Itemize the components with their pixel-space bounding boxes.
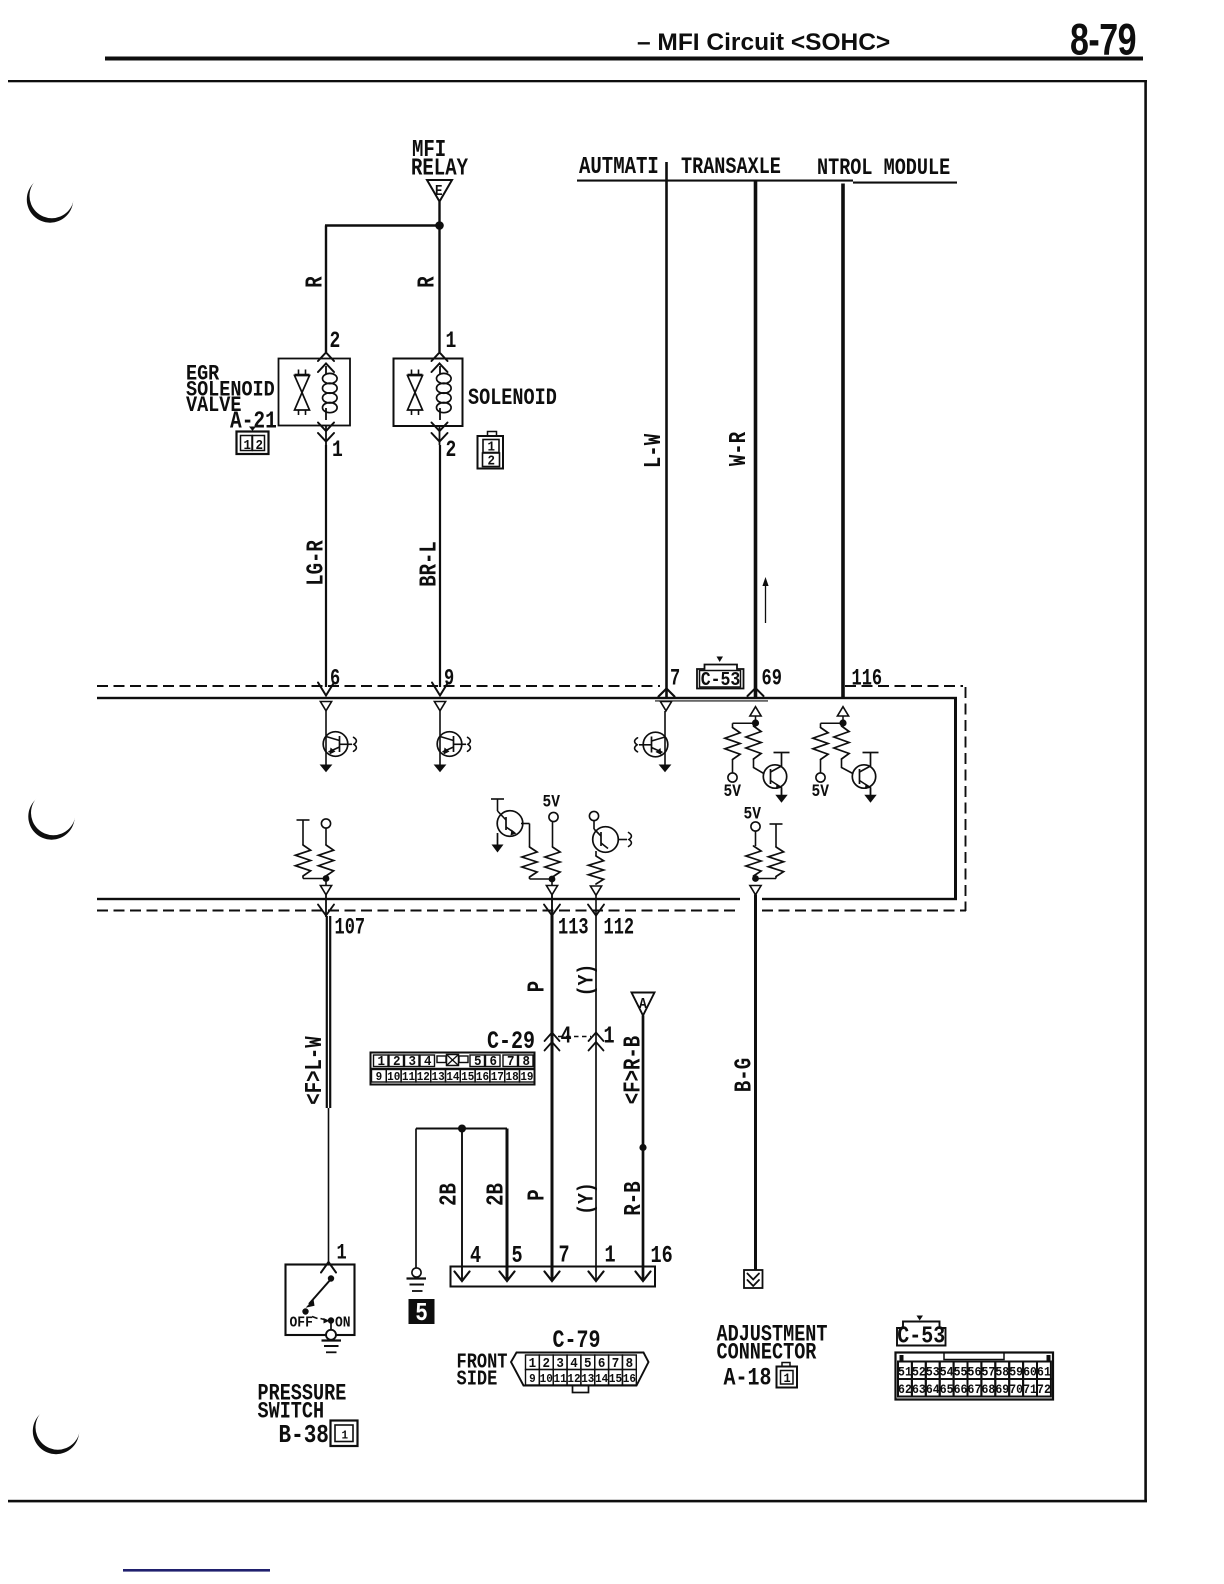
svg-text:69: 69 xyxy=(995,1383,1009,1398)
svg-text:2B: 2B xyxy=(437,1183,464,1206)
svg-text:(Y): (Y) xyxy=(575,964,600,996)
svg-text:A: A xyxy=(639,996,647,1013)
svg-text:BR-L: BR-L xyxy=(417,541,444,587)
svg-text:5V: 5V xyxy=(724,782,742,802)
svg-text:10: 10 xyxy=(387,1071,400,1085)
svg-text:SIDE: SIDE xyxy=(457,1367,498,1391)
svg-text:LG-R: LG-R xyxy=(304,540,331,586)
svg-text:3: 3 xyxy=(409,1053,417,1069)
svg-text:C-53: C-53 xyxy=(897,1323,945,1350)
svg-text:63: 63 xyxy=(912,1383,926,1398)
svg-text:1: 1 xyxy=(332,438,343,464)
svg-text:62: 62 xyxy=(898,1383,912,1398)
svg-text:13: 13 xyxy=(581,1373,594,1387)
svg-text:53: 53 xyxy=(926,1365,940,1380)
svg-text:107: 107 xyxy=(335,915,366,941)
svg-text:2: 2 xyxy=(446,438,457,464)
svg-text:56: 56 xyxy=(968,1365,982,1380)
svg-text:B-G: B-G xyxy=(732,1058,759,1092)
svg-text:16: 16 xyxy=(623,1373,636,1387)
svg-text:1: 1 xyxy=(604,1023,615,1050)
svg-text:54: 54 xyxy=(940,1365,954,1380)
svg-text:1: 1 xyxy=(337,1241,347,1266)
svg-text:11: 11 xyxy=(554,1373,567,1387)
svg-text:5V: 5V xyxy=(543,792,561,812)
svg-text:7: 7 xyxy=(559,1242,570,1269)
svg-text:W-R: W-R xyxy=(726,432,753,466)
svg-text:<F>R-B: <F>R-B xyxy=(621,1036,648,1104)
svg-text:OFF: OFF xyxy=(290,1315,313,1332)
svg-text:1: 1 xyxy=(784,1372,792,1387)
svg-text:12: 12 xyxy=(567,1373,580,1387)
svg-text:61: 61 xyxy=(1037,1365,1051,1380)
svg-text:(Y): (Y) xyxy=(575,1182,600,1214)
svg-text:1: 1 xyxy=(244,437,252,453)
svg-text:65: 65 xyxy=(940,1383,954,1398)
svg-text:2: 2 xyxy=(393,1053,401,1069)
svg-text:116: 116 xyxy=(852,666,883,692)
svg-text:B-38: B-38 xyxy=(279,1421,329,1451)
svg-text:R: R xyxy=(415,276,442,287)
svg-text:6: 6 xyxy=(330,666,340,692)
svg-text:6: 6 xyxy=(490,1053,498,1069)
svg-text:16: 16 xyxy=(476,1071,489,1085)
svg-text:<F>L-W: <F>L-W xyxy=(302,1036,329,1104)
svg-text:60: 60 xyxy=(1023,1365,1037,1380)
svg-text:2: 2 xyxy=(256,437,264,453)
svg-text:1: 1 xyxy=(342,1429,349,1443)
svg-text:– MFI Circuit <SOHC>: – MFI Circuit <SOHC> xyxy=(637,29,890,56)
svg-text:R-B: R-B xyxy=(621,1181,648,1215)
svg-text:69: 69 xyxy=(762,666,782,692)
svg-text:9: 9 xyxy=(444,666,454,692)
svg-text:11: 11 xyxy=(402,1071,415,1085)
svg-text:RELAY: RELAY xyxy=(411,156,468,183)
svg-text:12: 12 xyxy=(417,1071,430,1085)
svg-text:16: 16 xyxy=(651,1243,673,1270)
svg-text:13: 13 xyxy=(432,1071,445,1085)
svg-text:64: 64 xyxy=(926,1383,940,1398)
svg-text:66: 66 xyxy=(954,1383,968,1398)
svg-text:59: 59 xyxy=(1009,1365,1023,1380)
svg-text:55: 55 xyxy=(954,1365,968,1380)
svg-text:8: 8 xyxy=(523,1053,531,1069)
svg-text:C-53: C-53 xyxy=(701,670,741,692)
svg-text:L-W: L-W xyxy=(641,434,668,468)
svg-text:68: 68 xyxy=(981,1383,995,1398)
svg-text:P: P xyxy=(525,1189,552,1200)
svg-text:TRANSAXLE: TRANSAXLE xyxy=(681,155,781,180)
svg-text:113: 113 xyxy=(558,915,589,941)
svg-text:R: R xyxy=(303,276,330,287)
svg-text:AUTMATI: AUTMATI xyxy=(579,154,659,181)
svg-text:1: 1 xyxy=(605,1242,616,1269)
svg-text:57: 57 xyxy=(981,1365,995,1380)
svg-text:5V: 5V xyxy=(744,804,762,824)
svg-text:58: 58 xyxy=(995,1365,1009,1380)
svg-text:5: 5 xyxy=(474,1053,482,1069)
svg-text:2B: 2B xyxy=(484,1183,511,1206)
svg-text:5V: 5V xyxy=(812,782,830,802)
svg-text:A-18: A-18 xyxy=(724,1364,772,1393)
svg-text:2: 2 xyxy=(488,453,496,469)
svg-text:7: 7 xyxy=(670,666,680,692)
svg-text:67: 67 xyxy=(968,1383,982,1398)
svg-text:19: 19 xyxy=(520,1071,533,1085)
svg-text:4: 4 xyxy=(424,1053,432,1069)
svg-text:C-29: C-29 xyxy=(487,1027,535,1056)
svg-text:112: 112 xyxy=(604,915,635,941)
svg-text:NTROL MODULE: NTROL MODULE xyxy=(817,156,950,181)
svg-text:72: 72 xyxy=(1037,1383,1051,1398)
svg-text:52: 52 xyxy=(912,1365,926,1380)
svg-text:2: 2 xyxy=(330,329,341,355)
svg-text:14: 14 xyxy=(446,1071,459,1085)
svg-text:C-79: C-79 xyxy=(553,1326,601,1355)
svg-text:5: 5 xyxy=(415,1299,428,1329)
svg-text:9: 9 xyxy=(376,1071,383,1085)
svg-text:18: 18 xyxy=(506,1071,519,1085)
svg-text:7: 7 xyxy=(507,1053,515,1069)
svg-text:1: 1 xyxy=(446,329,457,355)
svg-text:70: 70 xyxy=(1009,1383,1023,1398)
svg-text:15: 15 xyxy=(461,1071,474,1085)
svg-text:71: 71 xyxy=(1023,1383,1037,1398)
svg-text:10: 10 xyxy=(540,1373,553,1387)
svg-text:51: 51 xyxy=(898,1365,912,1380)
svg-text:1: 1 xyxy=(378,1053,386,1069)
svg-text:P: P xyxy=(525,981,552,992)
svg-text:14: 14 xyxy=(595,1373,608,1387)
svg-text:CONNECTOR: CONNECTOR xyxy=(717,1341,817,1366)
svg-text:9: 9 xyxy=(529,1373,536,1387)
svg-text:E: E xyxy=(435,184,443,200)
svg-text:SOLENOID: SOLENOID xyxy=(468,386,557,411)
svg-text:17: 17 xyxy=(491,1071,504,1085)
svg-text:15: 15 xyxy=(609,1373,622,1387)
svg-text:ON: ON xyxy=(335,1315,351,1332)
